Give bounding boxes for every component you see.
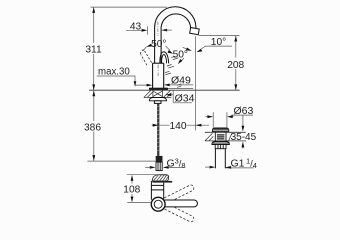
handle loop (solid, up position) — [160, 52, 169, 64]
50deg left leader arrow — [146, 44, 152, 47]
supply hose — [157, 103, 159, 155]
dim Ø63 underline — [232, 114, 254, 116]
max.30 leader — [97, 76, 147, 85]
aerator at spout end — [190, 27, 200, 34]
dim 208 arrows — [234, 36, 237, 90]
dim Ø63 extension lines — [213, 112, 227, 127]
10 deg outlet extension line — [199, 35, 240, 37]
cut section hatch ticks — [154, 175, 169, 181]
spout top extension line — [91, 6, 168, 8]
G3/8 left tail — [145, 166, 150, 168]
lever bar dashed down — [160, 202, 194, 223]
dim 10deg left tick — [183, 47, 187, 49]
countertop hatch right — [164, 90, 172, 97]
dim 311 arrows — [92, 7, 95, 90]
G3/8 nut — [156, 162, 162, 171]
svg-text:35-45: 35-45 — [231, 132, 257, 143]
spout outer arc — [155, 7, 196, 63]
G3/8 arrows — [150, 166, 169, 169]
washer under counter — [149, 98, 166, 101]
dim 386 line — [93, 90, 95, 161]
dim 35-45 arrows — [242, 116, 244, 149]
handle tilted-right sketch ticks — [165, 56, 182, 87]
countertop line — [89, 89, 240, 91]
drain threaded body through counter — [215, 132, 226, 141]
drain locknut flange — [212, 141, 229, 144]
drain cap skirt line — [212, 130, 228, 132]
base plate top extension line — [168, 87, 193, 89]
hose braid texture — [157, 106, 160, 151]
handle mount bar — [152, 181, 172, 183]
svg-text:Ø34: Ø34 — [175, 92, 195, 104]
handle joint circle — [151, 197, 165, 211]
svg-text:311: 311 — [85, 44, 102, 55]
countertop bottom line (faucet) — [144, 96, 172, 98]
dim 108 line — [131, 180, 133, 197]
dim Ø63 dim line tails — [206, 116, 234, 118]
spout inner arc — [161, 14, 191, 63]
drain counter hatch right — [229, 133, 232, 141]
140 vertical extension line (outlet axis) — [195, 36, 197, 130]
dim 43 right tail — [165, 29, 172, 31]
countertop hatch left — [144, 90, 152, 97]
dim Ø49 underline with arrow to body right wall — [169, 84, 193, 86]
dim 140 line — [152, 124, 209, 126]
hose end connector — [156, 156, 163, 162]
lever bar dashed up — [160, 184, 194, 205]
50deg left tail — [143, 47, 147, 51]
dim Ø63 arrows — [207, 115, 232, 118]
drain cap — [212, 128, 228, 132]
drain cap top band — [213, 128, 228, 130]
dim 140 arrows — [153, 124, 202, 127]
dim 208 line — [235, 36, 237, 90]
dim Ø34 box — [173, 90, 192, 102]
lever bar solid — [163, 200, 198, 207]
G1 1/4 left tail — [205, 166, 210, 168]
riser centerline — [157, 22, 159, 37]
body centerline — [157, 65, 159, 77]
counter bottom line (drain) — [205, 140, 246, 142]
svg-text:386: 386 — [84, 123, 101, 134]
dim 386 arrows — [92, 90, 95, 160]
dim 108 bottom extension — [127, 202, 151, 204]
max.30 arrowhead to body left wall — [147, 84, 153, 87]
nut under washer — [154, 101, 161, 104]
faucet body — [153, 63, 164, 88]
threaded shank through counter — [153, 90, 163, 97]
svg-text:108: 108 — [123, 185, 140, 196]
dim 386 bottom extension line — [87, 160, 155, 162]
dim 43 extension tick — [147, 26, 149, 34]
drain counter hatch left — [205, 133, 213, 141]
50deg right upper arrow — [168, 50, 174, 54]
G1 1/4 underline — [226, 167, 254, 169]
cut spout section blob — [152, 175, 169, 181]
50deg right upper leader — [166, 46, 170, 50]
50deg right lower arrow — [178, 59, 183, 64]
dim 10deg arrowheads — [186, 48, 202, 53]
svg-text:208: 208 — [227, 60, 244, 71]
base plate — [149, 88, 167, 90]
dim Ø34 arrow — [166, 93, 172, 96]
max.30 down arrowhead — [134, 81, 137, 86]
dim 43 arrows — [142, 29, 168, 32]
drain thread marks — [217, 135, 225, 139]
counter top line (drain) — [205, 131, 246, 133]
drain locknut — [215, 145, 226, 149]
handle dashed (tilted left) — [141, 50, 152, 65]
G3/8 underline — [164, 166, 185, 168]
side view body — [151, 181, 163, 200]
dim 108 arrows — [131, 175, 134, 203]
dim 311 line — [93, 7, 95, 90]
svg-text:140: 140 — [170, 121, 187, 132]
dim 10deg leader — [199, 46, 232, 50]
drain tailpipe — [215, 149, 225, 169]
svg-text:50°: 50° — [151, 39, 166, 50]
G1 1/4 arrows — [210, 166, 232, 169]
dim 108 top extension — [127, 174, 167, 176]
dim 43 leader line — [126, 29, 143, 31]
50deg right lower leader — [181, 58, 184, 62]
